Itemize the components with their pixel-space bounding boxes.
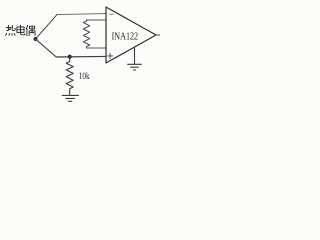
wire: RG bottom stub — [87, 47, 107, 49]
minus input mark — [110, 13, 114, 15]
svg-text:INA122: INA122 — [112, 32, 138, 43]
label 热电偶 (thermocouple) char 热 — [6, 25, 16, 35]
plus input mark — [108, 53, 113, 58]
label char 电 — [17, 25, 25, 35]
wire: RG top stub — [87, 19, 107, 21]
thermocouple node dot — [34, 37, 38, 41]
op-amp U1 INA122 triangle — [106, 7, 156, 63]
resistor RG (gain) — [83, 20, 89, 48]
wire: reference ground stub — [134, 47, 136, 64]
label char 偶 — [26, 25, 35, 35]
wire: output stub — [156, 34, 160, 36]
wire: lower thermocouple lead — [36, 39, 107, 57]
wire: upper thermocouple lead — [36, 15, 58, 39]
svg-text:10k: 10k — [79, 72, 90, 82]
resistor 10k — [66, 57, 73, 95]
ground (right, at op-amp) — [128, 64, 142, 70]
junction node dot — [68, 55, 72, 59]
ground (left, under 10k) — [62, 95, 78, 101]
